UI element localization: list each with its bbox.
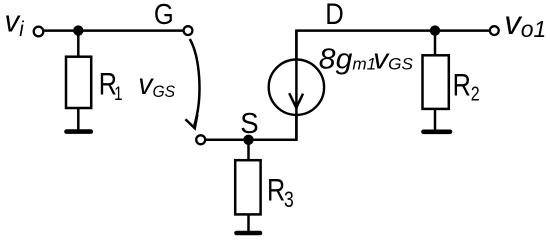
svg-text:S: S [240, 106, 258, 139]
svg-text:D: D [325, 0, 344, 30]
svg-text:G: G [154, 0, 174, 30]
